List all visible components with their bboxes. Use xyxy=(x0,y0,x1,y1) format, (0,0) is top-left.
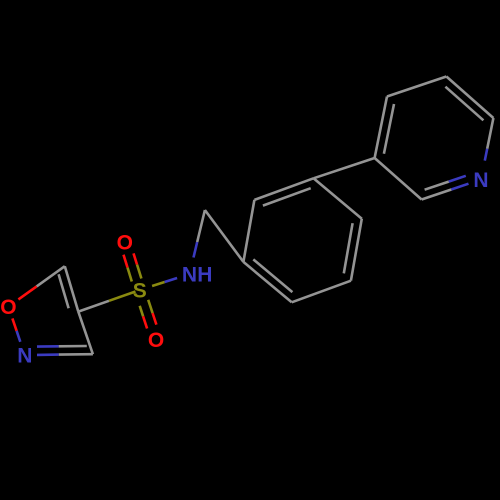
svg-text:H: H xyxy=(197,264,212,287)
svg-text:N: N xyxy=(473,169,488,192)
svg-text:N: N xyxy=(17,345,32,368)
svg-text:O: O xyxy=(117,232,133,255)
svg-text:N: N xyxy=(182,264,197,287)
svg-text:S: S xyxy=(133,280,147,303)
svg-text:O: O xyxy=(148,329,164,352)
svg-text:O: O xyxy=(0,296,16,319)
